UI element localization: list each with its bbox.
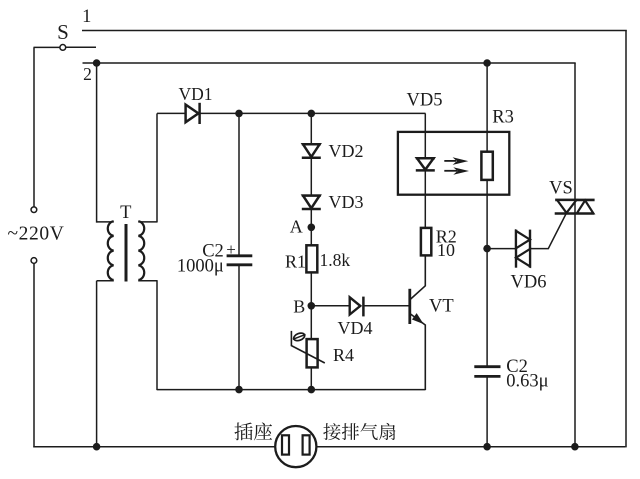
wire: VD2-VD3 link [310, 158, 312, 196]
label 插座 (socket) [234, 422, 252, 440]
transformer T secondary winding [138, 221, 144, 280]
transformer T primary winding [108, 221, 114, 280]
thermistor R4 body [307, 339, 318, 367]
transistor VT emitter [410, 314, 425, 390]
wire: AC line 1 top horizontal [82, 30, 627, 32]
wire: VD2 anode lead [310, 113, 312, 144]
label 接排气扇 (to exhaust fan) [323, 423, 340, 440]
wire: secondary bottom lead [138, 280, 157, 282]
node: triac column / bottom rail [571, 443, 579, 451]
wire: transformer primary feed from line 2 [96, 63, 98, 223]
svg-text:VD4: VD4 [338, 318, 373, 338]
wire: node B to VD4 [311, 305, 350, 307]
wire: left rail upper (to ~220V terminal) [33, 47, 35, 207]
svg-text:R1: R1 [285, 251, 306, 271]
node: junction line2 / R3 column [483, 59, 491, 67]
wire: C2 0.63u bottom lead [486, 377, 488, 447]
wire: VD1 cathode line to optocoupler [200, 112, 426, 114]
wire: primary top lead [97, 221, 114, 223]
wire: line 1 right vertical drop [625, 31, 627, 448]
wire: secondary top lead [138, 221, 157, 223]
wire: left lead into switch pole [34, 46, 60, 48]
svg-text:VD1: VD1 [178, 84, 212, 104]
wire: primary return to bottom rail [96, 281, 98, 447]
wire: inner bottom rail [157, 389, 426, 391]
triac VS right triangle [577, 200, 594, 213]
wire: VD3 to node A [310, 210, 312, 246]
wire: VD4 to VT base [363, 305, 409, 307]
wire: R4 to inner rail [310, 367, 312, 389]
wire: R2 top lead from optocoupler LED [424, 194, 426, 228]
wire: AC line 2 horizontal [83, 62, 576, 64]
resistor R1 body [306, 245, 317, 272]
wire: C2 1000u top lead [238, 113, 240, 255]
node: R4 / inner rail junction [308, 386, 316, 394]
wire: R3 column below box [486, 180, 488, 367]
svg-text:0.63μ: 0.63μ [506, 371, 548, 391]
wire: primary bottom lead [97, 280, 114, 282]
diode VD1 (rectifier) [186, 105, 199, 123]
transistor VT base bar [408, 289, 411, 324]
capacitor C2 1000u plates [227, 254, 253, 257]
wire: secondary down to inner ground rail [156, 280, 158, 390]
optocoupler LED (inside box) [416, 157, 435, 160]
diode VD2 [302, 143, 321, 146]
wire: bottom rail left of socket [33, 446, 275, 448]
svg-text:VD2: VD2 [329, 141, 364, 161]
wire: C2 1000u bottom lead [238, 265, 240, 389]
node: junction VD1 line / VD2 column [308, 110, 316, 118]
~220V lower terminal (open circle) [31, 258, 37, 264]
socket right prong [303, 435, 310, 454]
wire: bottom rail right of socket [317, 446, 626, 448]
svg-text:A: A [290, 217, 303, 237]
svg-text:10: 10 [437, 240, 455, 260]
light arrow upper [444, 160, 456, 162]
svg-text:R4: R4 [333, 345, 354, 365]
triac VS left triangle [557, 200, 576, 213]
svg-text:B: B [293, 297, 305, 317]
svg-text:VS: VS [549, 178, 573, 198]
wire: optocoupler LED feed down [424, 113, 426, 158]
photoresistor R3 body [481, 152, 492, 180]
triac VS bottom terminal bar [555, 212, 594, 215]
switch S pole contact (open circle) [60, 45, 66, 51]
diode VD3 [302, 194, 321, 197]
svg-text:1: 1 [82, 7, 91, 27]
svg-text:~220V: ~220V [8, 224, 65, 245]
node: junction VD1 line / C2 column [235, 110, 243, 118]
node: C2 0.63u / bottom rail [483, 443, 491, 451]
diac VD6 [515, 230, 517, 268]
light arrow lower [444, 170, 457, 172]
optocoupler VD5 box [398, 132, 509, 195]
svg-text:R3: R3 [492, 107, 514, 127]
svg-text:S: S [57, 20, 69, 44]
transistor VT collector [410, 256, 425, 300]
socket circle [275, 426, 316, 467]
svg-text:T: T [120, 203, 131, 223]
switch S arm [66, 46, 96, 48]
wire: R1 to node B [310, 272, 312, 339]
svg-text:2: 2 [83, 64, 92, 84]
wire: LED cathode inside box [424, 171, 426, 195]
node: primary / bottom rail junction [93, 443, 101, 451]
diode VD4 [350, 297, 361, 314]
wire: line 2 vertical drop to triac VS [574, 63, 576, 447]
svg-text:VD3: VD3 [329, 192, 364, 212]
svg-text:1.8k: 1.8k [320, 250, 351, 270]
node: junction R3 column / diac branch [483, 245, 491, 253]
wire: R3 column above box [486, 63, 488, 152]
capacitor C2 0.63u plates [474, 365, 500, 368]
wire: left rail lower [33, 263, 35, 447]
socket left prong [282, 435, 289, 454]
svg-text:1000μ: 1000μ [177, 256, 224, 276]
node: junction line2 / primary [93, 59, 101, 67]
node A [308, 224, 316, 232]
thermistor theta mark [292, 331, 307, 342]
thermistor R4 diagonal + riser [291, 331, 324, 363]
node: C2 / inner rail junction [235, 386, 243, 394]
transistor VT emitter arrow [413, 314, 422, 323]
node B [308, 302, 316, 310]
~220V upper terminal (open circle) [31, 207, 37, 213]
resistor R2 body [421, 228, 431, 256]
wire: diac to triac gate [530, 213, 567, 249]
svg-text:VD6: VD6 [511, 272, 547, 292]
transformer T core [125, 224, 128, 282]
triac VS top terminal bar [555, 199, 594, 202]
svg-text:VD5: VD5 [407, 90, 443, 110]
wire: to diac VD6 [487, 248, 516, 250]
wire: secondary up to VD1 line [156, 113, 158, 222]
wire: VD1 anode lead [157, 112, 186, 114]
svg-text:VT: VT [429, 297, 454, 317]
